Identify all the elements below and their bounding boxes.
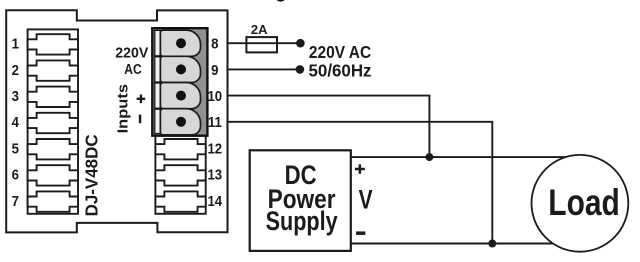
wire pin8 to 220V AC terminal: [227, 42, 300, 44]
clamp tick 2: [155, 81, 161, 83]
svg-text:2: 2: [12, 61, 19, 78]
meter module outline DJ-V48DC: [6, 10, 227, 232]
svg-text:V: V: [359, 184, 373, 214]
plus sign for input polarity: [137, 95, 146, 104]
svg-text:8: 8: [211, 35, 218, 52]
DC- wire from supply to load: [351, 243, 558, 245]
plug terminal 11: [160, 109, 200, 135]
right terminal strip enclosure: [155, 29, 205, 213]
svg-text:4: 4: [12, 113, 19, 130]
terminal 14 bone: [155, 191, 205, 211]
terminal 12 bone: [155, 139, 205, 159]
terminal 2 bone: [28, 60, 78, 80]
screw dot pin 10: [176, 91, 186, 101]
svg-text:AC: AC: [124, 61, 142, 78]
terminal 3 bone: [28, 87, 78, 107]
terminal dot 50/60Hz: [296, 65, 305, 74]
load circle: [532, 155, 629, 252]
plug-in connector block body: [152, 28, 207, 136]
minus sign for input polarity (rotated, vertical): [139, 115, 142, 124]
svg-text:Load: Load: [548, 181, 620, 223]
DC+ wire from supply to load: [350, 156, 567, 158]
svg-text:11: 11: [208, 113, 222, 130]
plug terminal 10: [160, 83, 200, 109]
terminal dot 220V AC: [296, 39, 305, 48]
svg-text:50/60Hz: 50/60Hz: [309, 61, 372, 81]
cut-off text descender at top: [276, 0, 284, 2]
terminal 13 bone: [155, 165, 205, 185]
svg-text:10: 10: [207, 87, 222, 104]
supply + terminal sign: [355, 164, 365, 173]
svg-text:220V AC: 220V AC: [309, 42, 372, 62]
wire pin10 to DC+ rail: [227, 96, 429, 158]
fuse F1 2A: [246, 37, 277, 52]
clamp tick 3: [155, 108, 161, 110]
screw dot pin 9: [176, 64, 186, 74]
svg-text:7: 7: [12, 192, 19, 209]
left terminal strip enclosure: [28, 29, 78, 213]
wire pin11 to DC- rail: [227, 122, 492, 244]
svg-text:220V: 220V: [115, 44, 148, 61]
terminal 5 bone: [28, 139, 78, 159]
svg-text:12: 12: [207, 140, 222, 157]
screw dot pin 8: [176, 38, 186, 48]
junction node on DC+ wire: [425, 153, 433, 161]
svg-text:1: 1: [12, 35, 19, 52]
svg-text:Supply: Supply: [266, 206, 338, 236]
svg-text:14: 14: [207, 192, 222, 209]
terminal 6 bone: [28, 165, 78, 185]
svg-text:13: 13: [207, 166, 222, 183]
svg-text:9: 9: [211, 61, 218, 78]
svg-text:2A: 2A: [251, 22, 268, 37]
terminal 1 bone: [28, 34, 78, 54]
DC power supply box: [250, 150, 351, 251]
connector left clamp strip: [155, 30, 160, 133]
terminal 7 bone: [28, 191, 78, 211]
wire pin9 to 50/60Hz terminal: [227, 68, 300, 70]
plug terminal 8: [160, 30, 200, 56]
supply - terminal sign: [356, 231, 365, 235]
svg-text:Inputs: Inputs: [115, 84, 131, 133]
svg-text:5: 5: [12, 140, 19, 157]
svg-text:6: 6: [12, 166, 19, 183]
junction node on DC- wire: [488, 240, 496, 248]
svg-text:DJ-V48DC: DJ-V48DC: [82, 134, 102, 216]
terminal 4 bone: [28, 113, 78, 133]
plug terminal 9: [160, 56, 200, 82]
svg-text:3: 3: [12, 87, 19, 104]
clamp tick 1: [155, 55, 161, 57]
screw dot pin 11: [176, 117, 186, 127]
